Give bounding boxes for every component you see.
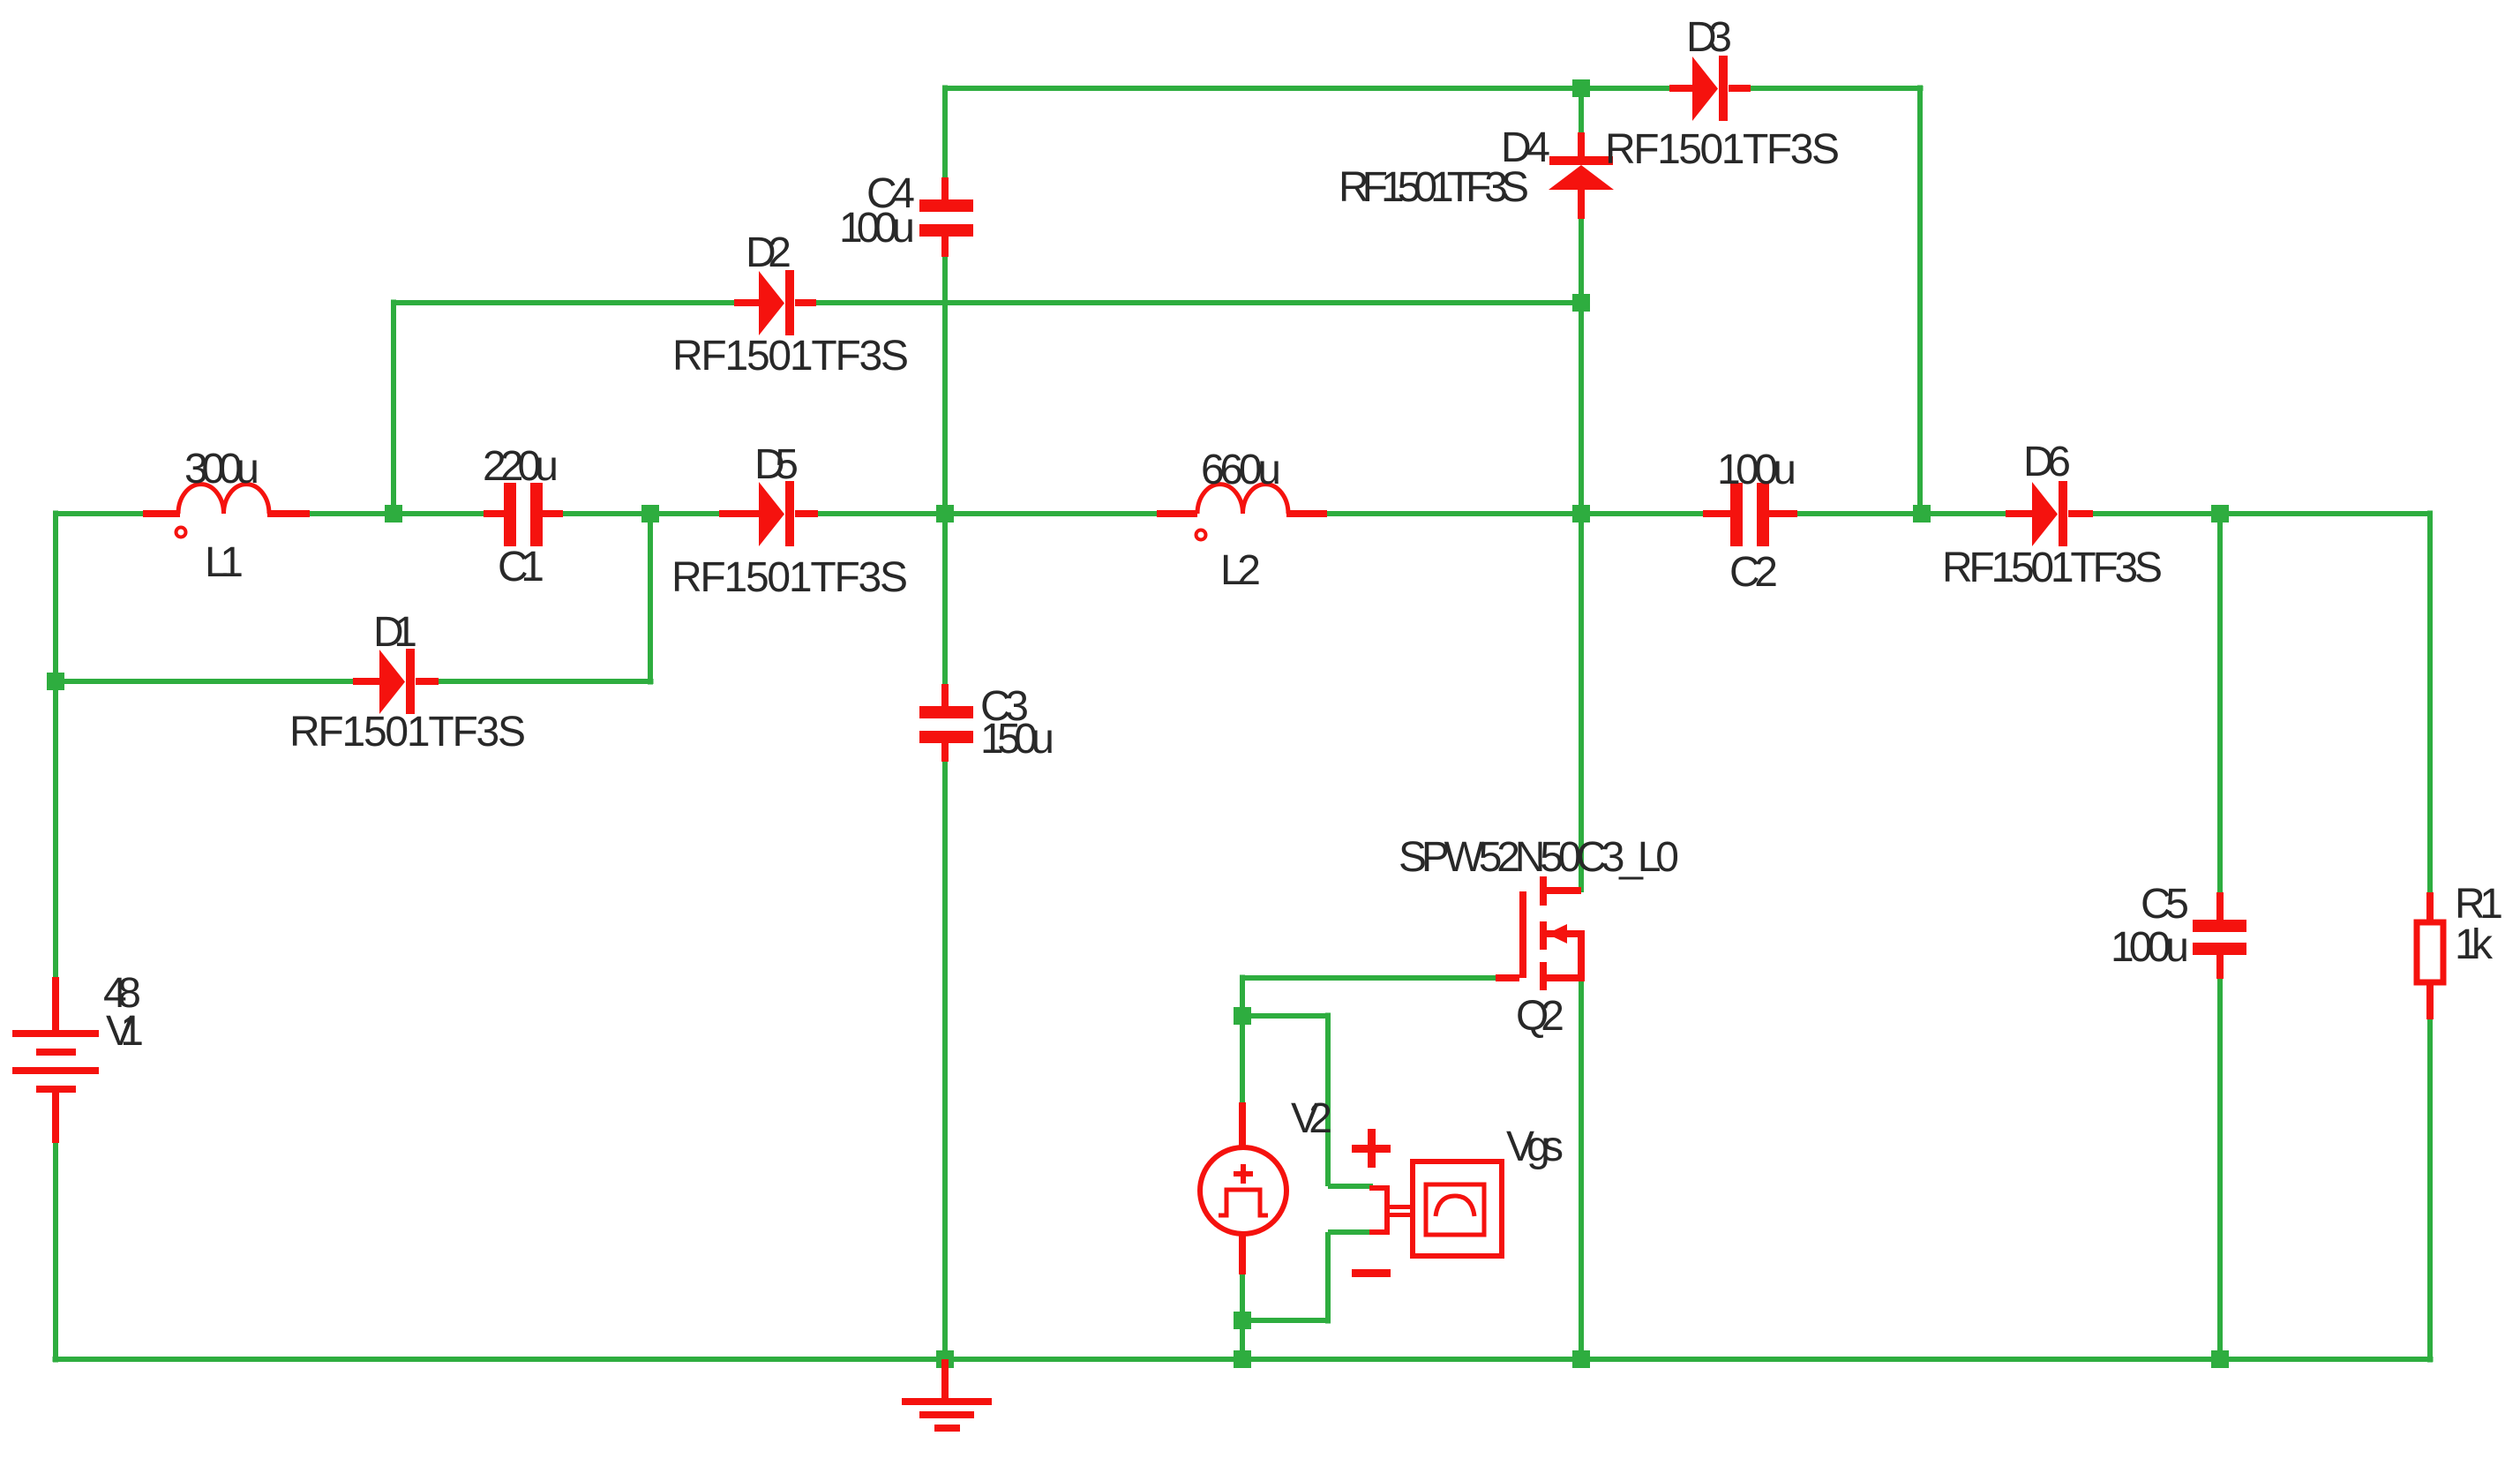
wire meter plus vertical (1325, 1013, 1331, 1187)
inductor L1 (143, 485, 310, 538)
wire top bus left segment (945, 86, 1672, 91)
wire right-top vertical x2176 (1917, 86, 1923, 515)
node at x1071 main row (936, 505, 954, 522)
svg-text:100u: 100u (839, 205, 915, 252)
svg-text:C2: C2 (1729, 549, 1778, 596)
diode D4 vertical pointing up (1549, 132, 1614, 219)
wire C5 vertical lower (2217, 976, 2223, 1363)
svg-text:150u: 150u (980, 716, 1054, 763)
wire lower node to right (1242, 1318, 1328, 1323)
wire left vertical upper (53, 511, 58, 981)
node bus x1792 (1572, 1350, 1590, 1368)
wire C3 vertical below to bus (942, 759, 948, 1359)
svg-text:100u: 100u (1717, 447, 1796, 493)
wire D2 row left segment (394, 300, 737, 305)
wire vertical x737 node to D1 row (648, 511, 653, 685)
ground (902, 1359, 992, 1432)
svg-text:D2: D2 (746, 229, 791, 276)
node bus x2516 (2211, 1350, 2229, 1368)
wire C4 vertical above (942, 86, 948, 181)
V2 minus polarity marker (1352, 1269, 1391, 1277)
capacitor C1 (484, 483, 563, 546)
wire left vertical lower (53, 1140, 58, 1363)
svg-text:SPW52N50C3_L0: SPW52N50C3_L0 (1399, 834, 1679, 881)
capacitor C2 (1703, 483, 1797, 546)
wire main row seg g (2090, 511, 2430, 516)
diode D5 (719, 481, 818, 546)
node at x2516 main row (2211, 505, 2229, 522)
svg-text:V2: V2 (1291, 1095, 1332, 1142)
svg-text:RF1501TF3S: RF1501TF3S (1605, 126, 1840, 173)
node D2 row x1792 (1572, 294, 1590, 312)
node at x446 main row (385, 505, 402, 522)
wire bottom bus (53, 1357, 2434, 1362)
svg-text:L1: L1 (205, 539, 244, 586)
wire top bus right segment (1748, 86, 1924, 91)
capacitor C3 (919, 684, 973, 762)
svg-text:D5: D5 (754, 441, 799, 488)
diode D1 (353, 649, 439, 714)
wire C5 vertical upper (2217, 511, 2223, 896)
diode D6 (2006, 481, 2093, 546)
wire meter minus horizontal (1328, 1229, 1373, 1235)
wire gate node to right (1242, 1013, 1328, 1019)
inductor L2 (1157, 485, 1327, 540)
voltmeter Vgs (1369, 1162, 1502, 1256)
svg-text:300u: 300u (184, 446, 259, 492)
svg-text:Q2: Q2 (1516, 993, 1564, 1040)
svg-text:RF1501TF3S: RF1501TF3S (671, 554, 908, 601)
resistor R1 (2417, 892, 2443, 1019)
svg-text:220u: 220u (483, 443, 559, 490)
wire C4 vertical below to main row (942, 254, 948, 687)
wire V2 node to bus (1240, 1320, 1245, 1363)
svg-text:C1: C1 (498, 544, 544, 590)
wire D4 vertical below through nodes to mosfet drain (1579, 216, 1584, 892)
node bus x1408 (1234, 1350, 1251, 1368)
wire R1 vertical upper (2427, 511, 2433, 896)
V2 plus polarity marker (1352, 1129, 1391, 1168)
svg-text:D1: D1 (373, 609, 417, 656)
wire gate horizontal (1242, 975, 1498, 981)
svg-text:V1: V1 (106, 1008, 144, 1055)
voltage source V2 pulse (1200, 1102, 1286, 1274)
wire mosfet source down to bus (1579, 978, 1584, 1359)
node V2 bottom x1408 (1234, 1312, 1251, 1329)
wire D1 row left segment (56, 679, 356, 684)
svg-text:RF1501TF3S: RF1501TF3S (1942, 545, 2163, 591)
wire D1 row right segment (436, 679, 654, 684)
svg-text:RF1501TF3S: RF1501TF3S (1339, 164, 1529, 211)
wire main row seg b (307, 511, 486, 516)
wire main row seg f (1797, 511, 2008, 516)
svg-text:660u: 660u (1201, 447, 1281, 493)
wire V2 bottom (1240, 1272, 1245, 1320)
wire meter minus vertical (1325, 1232, 1331, 1324)
wire vertical x446 node to D2 row (391, 300, 396, 515)
svg-text:1k: 1k (2455, 921, 2494, 968)
svg-text:L2: L2 (1220, 547, 1261, 594)
wire main row seg c (560, 511, 722, 516)
capacitor C5 vertical (2193, 892, 2246, 979)
wire D2 row right segment (814, 300, 1581, 305)
wire main row seg a (56, 511, 146, 516)
svg-text:D3: D3 (1686, 14, 1732, 61)
diode D2 (734, 270, 816, 335)
wire main row seg d (815, 511, 1159, 516)
wire main row seg e (1324, 511, 1706, 516)
node D1 row left (47, 673, 64, 690)
transistor Q2 NMOS (1496, 876, 1585, 990)
wire meter plus horizontal (1328, 1184, 1373, 1189)
svg-text:Vgs: Vgs (1506, 1124, 1564, 1170)
svg-text:RF1501TF3S: RF1501TF3S (289, 709, 526, 756)
node at x737 main row (641, 505, 659, 522)
wire gate drop to node (1240, 975, 1245, 1017)
svg-text:RF1501TF3S: RF1501TF3S (672, 333, 909, 380)
node gate x1408 (1234, 1007, 1251, 1025)
battery V1 value 48 (12, 977, 99, 1143)
node at x2178 main row (1913, 505, 1931, 522)
node top bus x1792 (1572, 79, 1590, 97)
wire D4 vertical above (1579, 86, 1584, 136)
node bus x1071 (936, 1350, 954, 1368)
capacitor C4 (919, 177, 973, 257)
wire V2 top (1240, 1016, 1245, 1105)
svg-text:D6: D6 (2023, 439, 2071, 485)
svg-text:C5: C5 (2141, 881, 2189, 928)
node at x1792 main row (1572, 505, 1590, 522)
svg-text:100u: 100u (2111, 924, 2189, 971)
wire R1 vertical lower (2427, 1017, 2433, 1363)
diode D3 (1669, 56, 1751, 121)
